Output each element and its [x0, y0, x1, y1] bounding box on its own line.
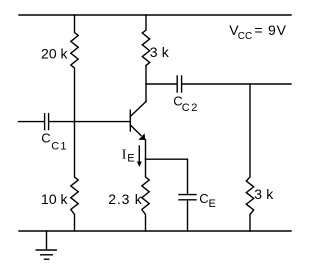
- svg-text:3k: 3k: [254, 186, 274, 202]
- svg-text:C: C: [41, 130, 50, 145]
- wire: emitter to CE branch: [146, 159, 188, 194]
- wire: top VCC rail: [19, 14, 291, 16]
- node: collector / CC2 junction: [145, 83, 147, 85]
- capacitor CC2: [177, 76, 181, 92]
- resistor R5 3 k (load): [246, 84, 253, 231]
- svg-text:= 9V: = 9V: [254, 22, 286, 38]
- ground: [36, 231, 56, 259]
- wire: base wire: [49, 121, 129, 123]
- svg-text:C: C: [199, 191, 208, 206]
- node: output / load junction: [249, 83, 251, 85]
- svg-text:20 k: 20 k: [41, 45, 68, 61]
- svg-text:10 k: 10 k: [41, 191, 68, 207]
- wire: CE to ground rail: [187, 200, 189, 231]
- current label IE with arrow: [122, 146, 142, 167]
- svg-text:C2: C2: [182, 102, 199, 114]
- transistor Q1: [130, 102, 146, 141]
- label VCC = 9V: [229, 22, 287, 42]
- wire: emitter lead: [145, 140, 147, 160]
- capacitor CE: [179, 195, 196, 200]
- svg-text:3k: 3k: [150, 44, 170, 60]
- svg-text:C1: C1: [51, 140, 67, 152]
- node: emitter / CE branch junction: [145, 158, 147, 160]
- node: base voltage-divider junction: [74, 121, 76, 123]
- label CC2: [173, 94, 199, 115]
- wire: collector lead: [145, 66, 147, 102]
- resistor R4 2.3 k (emitter): [142, 159, 149, 231]
- svg-text:E: E: [127, 153, 134, 165]
- resistor R2 10 k: [71, 122, 78, 231]
- svg-text:I: I: [122, 148, 127, 163]
- wire: bottom ground rail: [19, 230, 291, 232]
- wire: input lead: [19, 121, 45, 123]
- svg-text:CC: CC: [238, 31, 252, 42]
- label CE: [199, 191, 216, 210]
- label CC1: [41, 130, 67, 152]
- svg-text:E: E: [209, 198, 216, 210]
- resistor R3 3 k (collector): [142, 15, 149, 66]
- svg-text:2.3k: 2.3k: [108, 191, 143, 207]
- capacitor CC1: [45, 114, 49, 130]
- resistor R1 20 k: [71, 15, 78, 122]
- wire: output line: [182, 83, 291, 85]
- wire: collector to CC2: [146, 83, 177, 85]
